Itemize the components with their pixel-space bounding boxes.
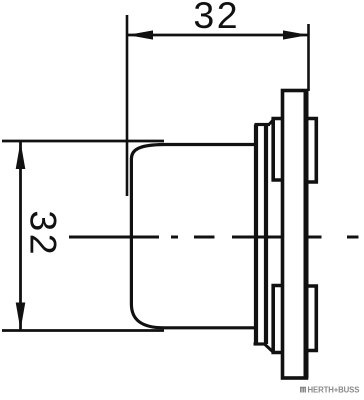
- left tab upper: [273, 119, 282, 181]
- arrowhead top-left: [128, 30, 154, 39]
- rim-to-tab diagonal top: [270, 120, 274, 125]
- rim right line (x=266): [264, 125, 268, 345]
- extension line left (vertical, x=126.5): [126, 15, 129, 196]
- dimension line top (y=35): [128, 34, 308, 37]
- arrowhead left-bottom: [16, 303, 26, 331]
- rim-to-tab diagonal bottom: [265, 345, 273, 352]
- left tab lower: [273, 286, 282, 353]
- centerline (dash-dot, y=237): [69, 236, 159, 239]
- svg-text:32: 32: [23, 210, 65, 257]
- arrowhead top-right: [283, 30, 309, 39]
- rim top cap (y=124.5): [255, 123, 271, 126]
- flange plate: [283, 91, 307, 379]
- right tab lower: [307, 286, 317, 351]
- flange right edge (thick): [304, 91, 309, 379]
- extension line right (vertical, x=308.5): [307, 24, 310, 91]
- rim left line (x=256): [254, 125, 258, 345]
- arrowhead left-top: [16, 142, 26, 170]
- svg-text:32: 32: [193, 0, 240, 36]
- extension line bottom (horizontal, y=330.5): [2, 329, 164, 332]
- cap body outline: [131, 145, 254, 328]
- right tab upper: [307, 119, 317, 183]
- Herth+Buss logo mark: [300, 387, 306, 393]
- dimension line left (x=20.5): [19, 142, 22, 330]
- rim bottom cap (y=344): [254, 342, 266, 345]
- svg-text:HERTH+BUSS: HERTH+BUSS: [308, 386, 360, 395]
- extension line top (horizontal, y=141): [2, 140, 164, 143]
